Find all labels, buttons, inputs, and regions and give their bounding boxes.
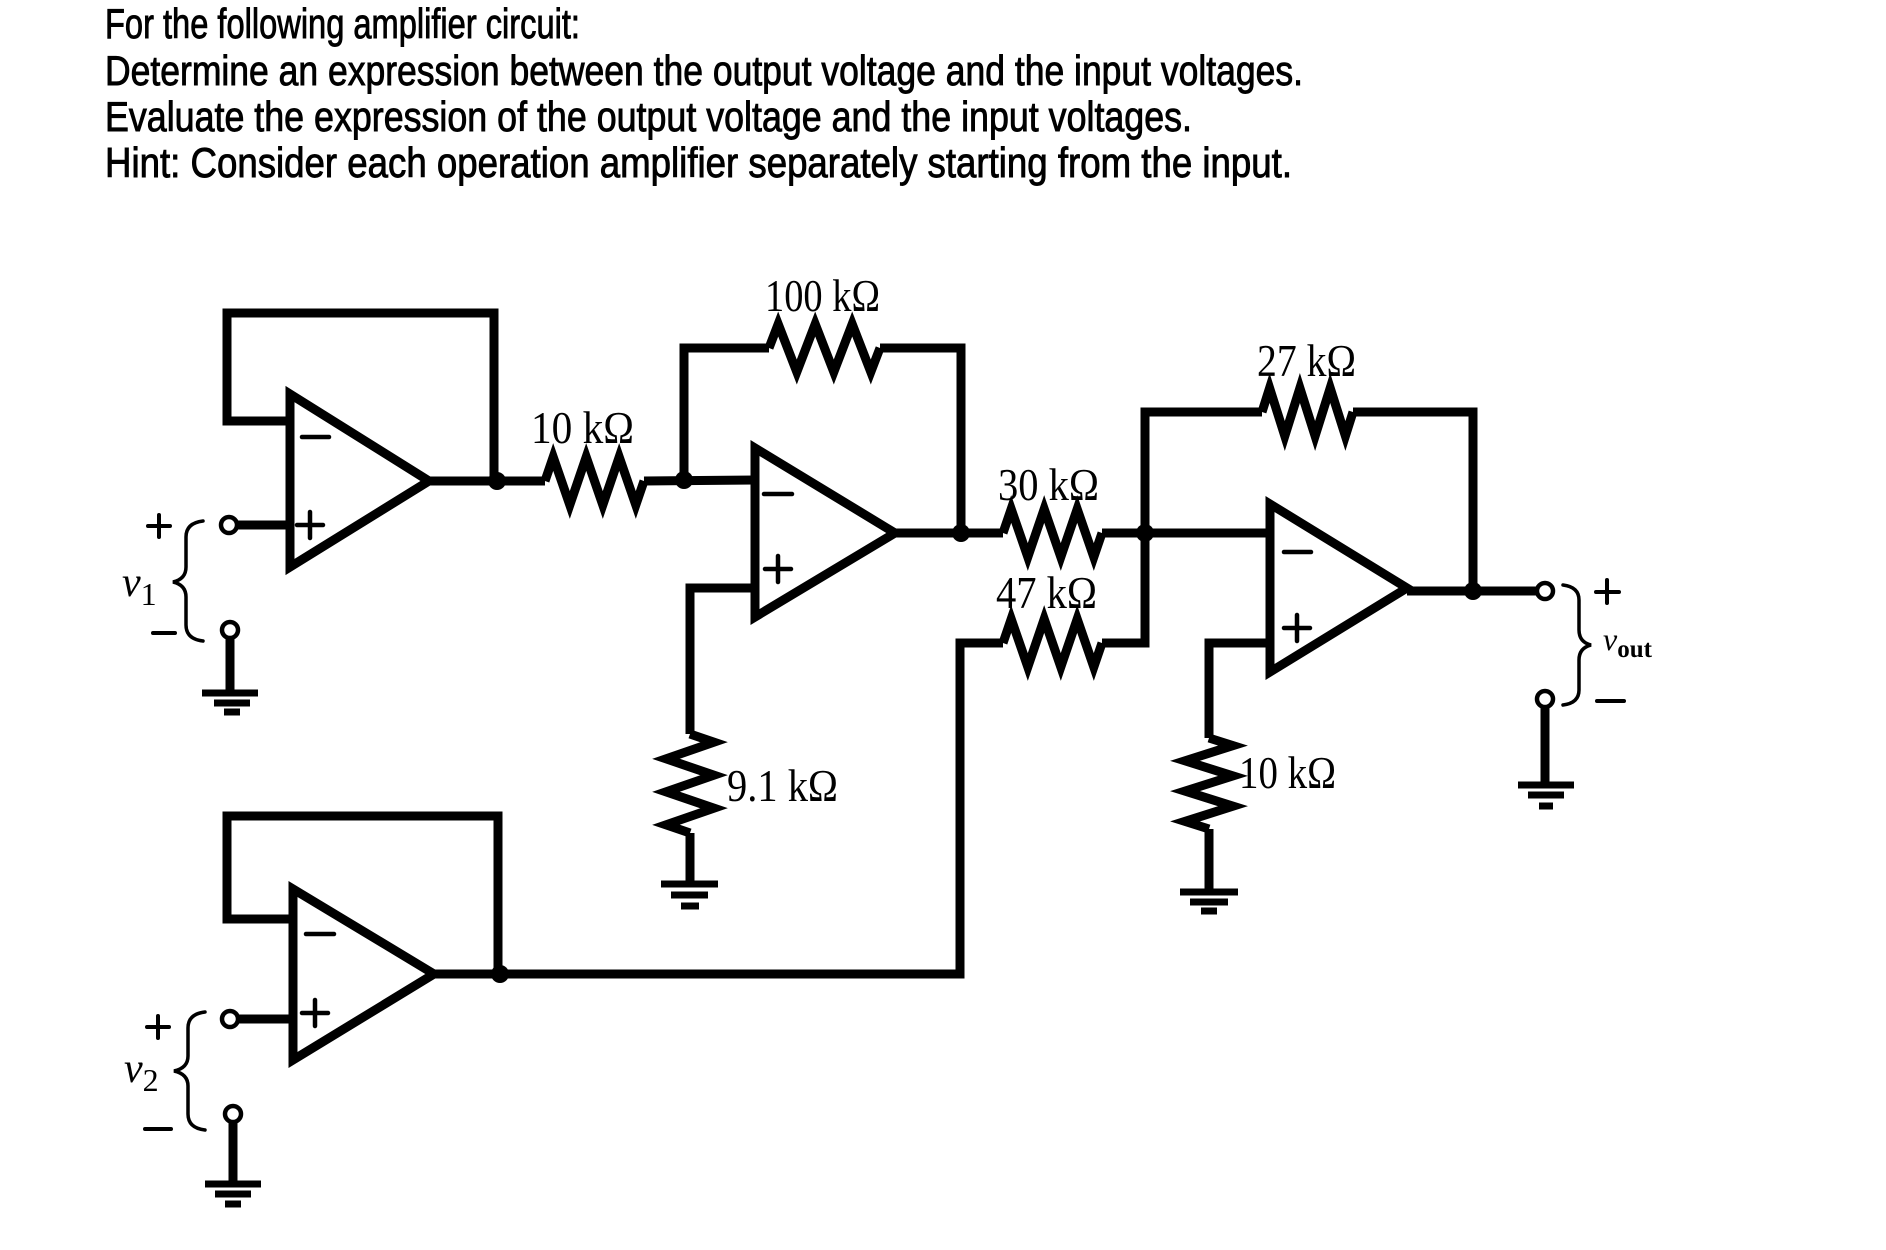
wire U2 feedback loop left <box>684 348 769 480</box>
resistor R1 10 kOhm <box>545 457 644 505</box>
wire U1 noninverting input <box>237 521 290 530</box>
resistor R2 100 kOhm <box>769 324 880 372</box>
svg-text:Evaluate the expression of the: Evaluate the expression of the output vo… <box>105 93 1192 140</box>
resistor R6 10 kOhm <box>1185 738 1233 829</box>
wire U4 noninverting input <box>238 1015 293 1024</box>
brace for v2 <box>174 1012 205 1130</box>
wire U3 feedback loop right <box>1353 412 1473 591</box>
op-amp U4 plus sign <box>302 1000 328 1026</box>
wire U3 output <box>1407 587 1537 596</box>
svg-text:10 kΩ: 10 kΩ <box>1239 748 1336 798</box>
brace for vout <box>1563 585 1591 705</box>
resistor R4 30 kOhm <box>1003 509 1102 557</box>
terminal vout plus <box>1537 583 1553 599</box>
terminal v2 plus <box>222 1011 238 1027</box>
brace for v1 <box>173 521 203 641</box>
ground G3 under 10 kOhm of U3 <box>1180 892 1238 911</box>
terminal v1 plus <box>221 517 237 533</box>
svg-text:For the following amplifier ci: For the following amplifier circuit: <box>105 0 580 47</box>
wire U2 noninverting input <box>690 588 755 734</box>
v1 minus sign <box>153 631 175 635</box>
terminal vout minus <box>1537 691 1553 707</box>
wire U2 output <box>895 529 1003 538</box>
junction node U1 output <box>488 472 506 490</box>
ground G4 under vout <box>1518 785 1574 806</box>
resistor R3 9.1 kOhm <box>666 734 714 833</box>
junction node U2 inverting input <box>675 471 693 489</box>
ground G2 under 9.1 kOhm <box>661 884 718 906</box>
resistor R5 27 kOhm <box>1262 388 1353 436</box>
vout plus sign <box>1596 580 1619 603</box>
wire v1 minus terminal to ground <box>226 638 235 690</box>
vout minus sign <box>1597 699 1624 703</box>
wire R4 to U3 inverting input <box>1102 529 1270 538</box>
ground G1 under v1 <box>202 693 258 712</box>
svg-text:10 kΩ: 10 kΩ <box>531 403 634 453</box>
wire R7 to U3 inverting node <box>1102 533 1145 643</box>
resistor R7 47 kOhm <box>1003 619 1102 667</box>
svg-text:30 kΩ: 30 kΩ <box>998 460 1099 510</box>
wire R1 to U2 inverting node <box>644 480 755 481</box>
op-amp U4 minus sign <box>306 932 334 937</box>
junction node U3 inverting input <box>1136 524 1154 542</box>
junction node U3 output <box>1464 582 1482 600</box>
svg-text:Determine an expression betwee: Determine an expression between the outp… <box>105 47 1303 94</box>
op-amp U3 minus sign <box>1284 550 1311 555</box>
svg-text:9.1 kΩ: 9.1 kΩ <box>727 761 838 811</box>
wire R3 to ground <box>686 833 695 881</box>
wire U4 feedback loop <box>227 816 498 974</box>
wire vout minus terminal to ground <box>1541 707 1550 782</box>
wire R6 to ground <box>1205 829 1214 889</box>
wire U3 feedback loop left <box>1145 412 1262 533</box>
wire U2 feedback loop right <box>880 348 961 533</box>
op-amp U1 plus sign <box>297 512 323 538</box>
op-amp U4 <box>293 889 434 1060</box>
svg-text:27 kΩ: 27 kΩ <box>1257 336 1356 386</box>
wire U1 output <box>429 477 545 486</box>
wire U3 noninverting input <box>1209 643 1270 738</box>
op-amp U1 minus sign <box>302 435 329 440</box>
op-amp U3 <box>1270 504 1407 672</box>
junction node U4 output <box>491 965 509 983</box>
terminal v1 minus <box>222 622 238 638</box>
ground G5 under v2 <box>205 1184 261 1204</box>
op-amp U2 <box>755 448 895 617</box>
v2 plus sign <box>147 1016 169 1038</box>
terminal v2 minus <box>225 1106 241 1122</box>
wire U4 output to 47k <box>434 643 1003 974</box>
op-amp U3 plus sign <box>1284 615 1310 641</box>
svg-text:100 kΩ: 100 kΩ <box>765 271 880 321</box>
v1 plus sign <box>148 515 170 537</box>
svg-text:Hint: Consider each operation: Hint: Consider each operation amplifier … <box>105 139 1292 186</box>
v2 minus sign <box>145 1127 171 1131</box>
svg-text:47 kΩ: 47 kΩ <box>996 568 1097 618</box>
junction node U2 output <box>952 524 970 542</box>
op-amp U2 plus sign <box>765 556 791 582</box>
wire U1 feedback loop <box>227 313 494 481</box>
wire v2 minus terminal to ground <box>229 1122 238 1181</box>
op-amp U1 <box>290 394 429 567</box>
op-amp U2 minus sign <box>764 492 792 497</box>
